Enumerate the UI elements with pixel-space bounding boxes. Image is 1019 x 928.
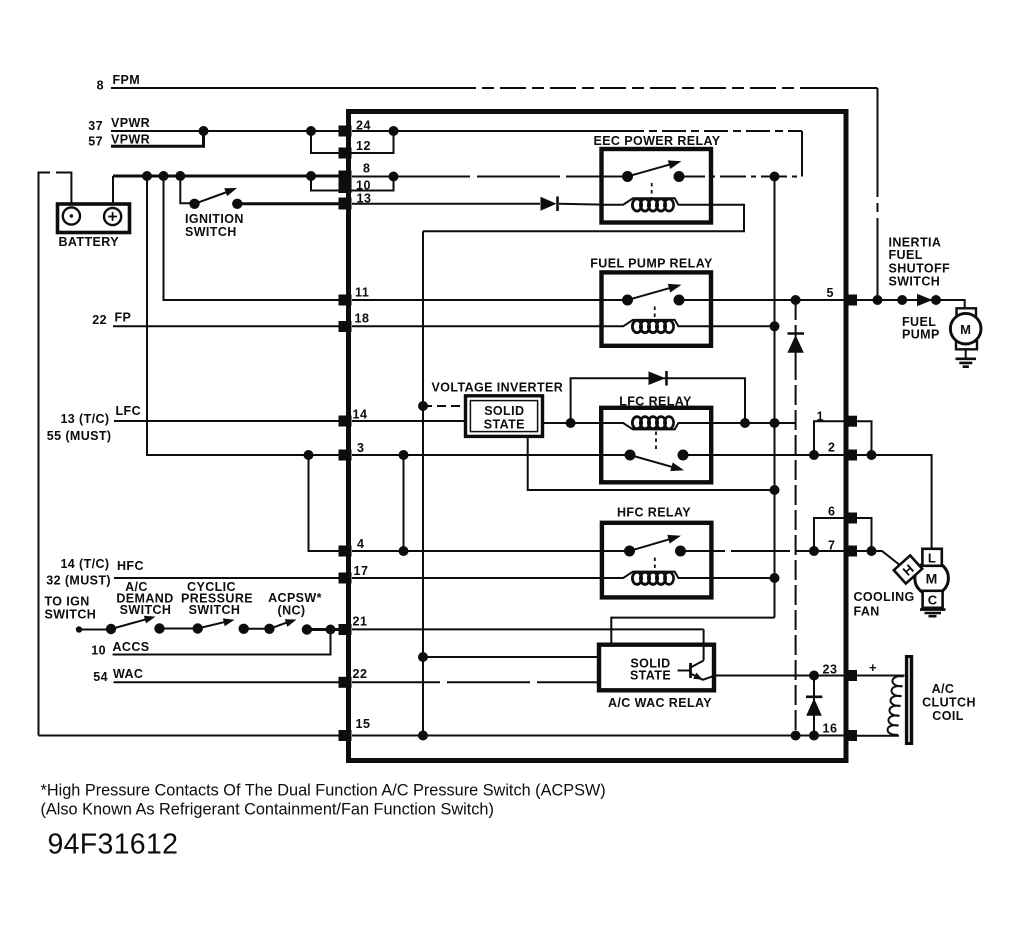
wire internal jumper pin 6 to line 7: [814, 518, 844, 551]
svg-text:VPWR: VPWR: [111, 133, 150, 147]
pin 8 terminal: [339, 171, 352, 182]
wire ACCS line pin 10: [113, 630, 331, 655]
transistor Q1 in WAC relay: [678, 646, 715, 680]
A/C clutch coil L1: [888, 655, 914, 745]
svg-text:L: L: [928, 550, 936, 565]
node VPWR 37/57 junction: [199, 126, 209, 136]
wire FPM pin 8 line horizontal: [111, 87, 450, 89]
pin 6 terminal: [844, 513, 857, 524]
wire voltage inverter top input: [423, 405, 466, 407]
wire line 11 from bus to pin 11: [164, 176, 342, 300]
wire fuel pump relay coil return to bus: [711, 325, 775, 327]
node diode loop right junction: [740, 418, 750, 428]
svg-text:HFC: HFC: [117, 559, 144, 573]
svg-text:14 (T/C): 14 (T/C): [60, 557, 109, 571]
svg-text:VOLTAGE INVERTER: VOLTAGE INVERTER: [432, 380, 564, 394]
svg-text:CLUTCH: CLUTCH: [922, 696, 976, 710]
svg-text:17: 17: [354, 564, 369, 578]
pin 5 terminal: [844, 295, 857, 306]
node inverter bottom line to bus junction: [770, 485, 780, 495]
svg-text:16: 16: [823, 722, 838, 736]
ignition switch S1: [189, 188, 242, 209]
wire VPWR internal bus vertical: [774, 177, 776, 618]
wire pin 10 internal jumper to line 8: [341, 177, 394, 191]
wire ignition switch output to pin 13 (thick): [237, 202, 341, 205]
relay HFC relay contacts: [624, 535, 686, 573]
wire pin 18 internal to fuel pump relay coil: [352, 325, 602, 327]
wire FP line 22 to pin 18: [113, 325, 341, 327]
A/C demand switch S2: [106, 616, 165, 635]
wire pin 6 external jumper: [857, 518, 872, 551]
svg-text:57: 57: [88, 135, 103, 149]
svg-text:LFC: LFC: [116, 404, 142, 418]
node lead end dot: [76, 626, 82, 632]
node ACCS junction: [326, 625, 336, 635]
cyclic pressure switch S3: [193, 618, 249, 634]
wire pin 4 internal to HFC relay left contact: [352, 550, 630, 552]
svg-text:10: 10: [356, 179, 371, 193]
wire outside jumper line 3 to pin 4: [309, 455, 342, 551]
svg-text:SHUTOFF: SHUTOFF: [889, 261, 951, 275]
node inverter output junction to diode loop: [566, 418, 576, 428]
svg-text:22: 22: [92, 313, 107, 327]
svg-text:M: M: [960, 322, 971, 337]
relay LFC relay coil: [602, 417, 711, 430]
wire EEC relay coil return: [423, 205, 744, 231]
svg-text:FAN: FAN: [854, 605, 880, 619]
svg-text:EEC POWER RELAY: EEC POWER RELAY: [593, 134, 720, 148]
wire pin 13 internal line to diode: [352, 203, 540, 205]
node jumper 1/2 junction on line 2: [809, 450, 819, 460]
svg-text:3: 3: [357, 441, 365, 455]
wire VPWR bus feed to WAC solid state: [611, 618, 774, 645]
svg-text:SWITCH: SWITCH: [185, 225, 237, 239]
relay EEC power relay box: [602, 149, 712, 223]
wire diode branch vertical (bus2): [795, 300, 797, 736]
node diode branch bottom junction on line 15: [809, 731, 819, 741]
pin 2 terminal: [844, 450, 857, 461]
wire battery negative to left edge: [39, 173, 72, 736]
wire LFC line to pin 14: [114, 420, 341, 422]
wire line 15 from left edge to pin 15: [39, 735, 342, 737]
ACPSW switch S4: [264, 619, 312, 634]
wire pin 21 internal line: [352, 628, 704, 630]
pin 24 terminal: [339, 126, 352, 137]
svg-text:55 (MUST): 55 (MUST): [47, 429, 112, 443]
wire outside jumper 8 to 10: [311, 176, 341, 191]
wire voltage inverter bottom output to bus: [528, 436, 775, 490]
wire line 23 external to clutch coil: [857, 676, 904, 677]
svg-text:14: 14: [353, 408, 368, 422]
svg-text:(Also Known As Refrigerant Con: (Also Known As Refrigerant Containment/F…: [41, 801, 494, 819]
svg-text:8: 8: [363, 162, 371, 176]
svg-text:FP: FP: [115, 311, 132, 325]
node bus2 bottom junction on line 15: [791, 731, 801, 741]
cooling fan motor M2: [894, 549, 949, 608]
node LFC coil to bus junction: [770, 418, 780, 428]
svg-text:TO IGN: TO IGN: [45, 595, 90, 609]
svg-text:32 (MUST): 32 (MUST): [46, 574, 111, 588]
wire WAC solid state output to pin 23: [714, 675, 844, 677]
wire internal jumper 3 to 4: [403, 455, 405, 551]
relay fuel pump relay contacts: [622, 284, 685, 322]
svg-text:5: 5: [827, 286, 835, 300]
wire pin 17 internal to HFC relay coil: [352, 577, 602, 579]
fuel pump motor M1: [950, 308, 981, 349]
svg-text:FPM: FPM: [113, 73, 141, 87]
node bus junction to line 3 vertical: [142, 171, 152, 181]
svg-text:4: 4: [357, 537, 365, 551]
node external jumper junction on line 2: [867, 450, 877, 460]
svg-text:11: 11: [355, 286, 369, 300]
node FPM junction on line 5: [873, 295, 883, 305]
svg-text:12: 12: [356, 139, 371, 153]
svg-text:24: 24: [356, 119, 371, 133]
svg-text:SWITCH: SWITCH: [45, 608, 97, 622]
wire internal jumper pin 1 to line 2: [814, 421, 844, 455]
svg-text:LFC RELAY: LFC RELAY: [619, 395, 692, 409]
relay EEC power relay coil: [602, 198, 711, 211]
wire VPWR pin 37 lead: [111, 130, 341, 132]
svg-text:SWITCH: SWITCH: [120, 603, 172, 617]
wire long vertical from EEC coil return down to line 15: [422, 231, 424, 735]
wire FPM vertical drop to fuel pump line: [877, 88, 879, 300]
svg-text:13 (T/C): 13 (T/C): [60, 412, 109, 426]
wire outside jumper 24 to 12: [311, 131, 341, 153]
diode CR3 on bus below line 5: [787, 334, 804, 353]
battery BAT1: [58, 204, 130, 233]
svg-text:21: 21: [353, 615, 368, 629]
wire pin 12 internal jumper to line 24: [341, 131, 394, 153]
diode CR1 on line 13: [541, 197, 558, 212]
wire pin 3 internal to LFC relay left contact: [352, 454, 630, 456]
wire pin 14 internal to voltage inverter: [352, 420, 466, 422]
wire chain segment acpsw to pin 21 (thick): [307, 628, 341, 631]
svg-text:18: 18: [355, 312, 370, 326]
wire line 16 external to clutch coil: [857, 735, 899, 737]
svg-text:*High Pressure Contacts Of The: *High Pressure Contacts Of The Dual Func…: [41, 782, 606, 800]
node junction WAC solid state input: [418, 652, 428, 662]
relay LFC relay contacts: [625, 432, 689, 472]
svg-text:8: 8: [97, 79, 104, 93]
diode CR2 LFC bypass: [649, 371, 667, 386]
svg-text:2: 2: [828, 441, 836, 455]
pin 22 terminal: [339, 677, 352, 688]
node bus junction to line 11 vertical: [159, 171, 169, 181]
node diode branch junction on line 23: [809, 671, 819, 681]
wire VPWR pin 57 lead (thick): [111, 131, 204, 146]
svg-text:STATE: STATE: [484, 418, 525, 432]
wire HFC relay coil return to bus: [711, 577, 775, 579]
node internal jumper 8/10: [389, 172, 399, 182]
node diode branch junction on line 5: [791, 295, 801, 305]
svg-text:A/C WAC RELAY: A/C WAC RELAY: [608, 696, 712, 710]
wire FPM dashed segment: [450, 87, 810, 89]
wire pin 8 internal line to EEC relay left contact: [352, 176, 628, 178]
A/C WAC relay solid state box U2: [599, 645, 714, 691]
svg-text:94F31612: 94F31612: [48, 829, 179, 861]
pin 14 terminal: [339, 416, 352, 427]
svg-text:SWITCH: SWITCH: [189, 603, 241, 617]
pin 23 terminal: [844, 670, 857, 681]
relay HFC relay box: [602, 523, 712, 598]
wire switch chain lead from ignition: [79, 629, 112, 631]
wire chain segment cyclic to acpsw: [244, 628, 270, 630]
wire WAC solid state left input: [423, 656, 599, 658]
node junction on line 15: [418, 731, 428, 741]
svg-text:COOLING: COOLING: [854, 590, 915, 604]
svg-text:A/C: A/C: [932, 682, 955, 696]
node HFC coil to bus junction: [770, 573, 780, 583]
wire line 5 external to inertia switch: [857, 300, 965, 309]
svg-text:37: 37: [88, 119, 103, 133]
node VPWR internal bus top junction: [770, 172, 780, 182]
svg-text:13: 13: [357, 192, 372, 206]
svg-text:SWITCH: SWITCH: [889, 275, 941, 289]
pin 7 terminal: [844, 546, 857, 557]
wire voltage inverter output to LFC relay coil: [543, 422, 796, 424]
wire line 21 corner down to transistor collector: [703, 629, 705, 661]
wire line 3 feed vertical from bus: [147, 176, 341, 455]
wire pin 24 internal dash-dot segment: [620, 130, 802, 132]
wire HFC line to pin 17: [114, 577, 341, 579]
pin 12 terminal: [339, 148, 352, 159]
relay LFC relay box: [601, 408, 711, 483]
node VPWR outside jumper junction: [306, 126, 316, 136]
diode CR4 on A/C clutch branch: [806, 697, 822, 716]
node line 3 outside jumper junction: [304, 450, 314, 460]
wire battery positive riser: [112, 176, 114, 205]
wire chain segment demand to cyclic: [160, 628, 198, 630]
wire battery positive bus to pin 8: [113, 175, 341, 178]
node line 5 junction 1: [897, 295, 907, 305]
wire corner down from line 24 to EEC relay output: [801, 131, 803, 177]
node bus junction to ignition switch: [175, 171, 185, 181]
pin 16 terminal: [844, 730, 857, 741]
wire diode branch line 23 to line 15: [813, 676, 815, 736]
node internal jumper 24/12: [389, 126, 399, 136]
svg-text:HFC RELAY: HFC RELAY: [617, 506, 691, 520]
svg-text:WAC: WAC: [113, 667, 143, 681]
ground fuel pump: [956, 349, 977, 366]
node jumper 6/7 junction on line 7: [809, 546, 819, 556]
relay EEC power relay contacts: [622, 160, 685, 199]
svg-text:15: 15: [356, 717, 371, 731]
wire line 2 external to cooling fan L: [857, 455, 932, 549]
svg-text:ACCS: ACCS: [113, 640, 150, 654]
node fuel pump relay coil to bus junction: [770, 321, 780, 331]
relay fuel pump relay box: [602, 272, 712, 345]
svg-text:BATTERY: BATTERY: [59, 235, 120, 249]
wire LFC relay output to pin 2: [683, 454, 844, 456]
EEC module box: [349, 112, 847, 761]
wire ignition switch feed from bus: [180, 176, 189, 203]
svg-text:23: 23: [823, 663, 838, 677]
pin 21 terminal: [339, 624, 352, 635]
svg-text:PUMP: PUMP: [902, 328, 940, 342]
svg-text:54: 54: [93, 670, 108, 684]
wire pin 15 internal line to pin 16: [352, 735, 844, 737]
pin 11 terminal: [339, 295, 352, 306]
svg-text:SOLID: SOLID: [484, 404, 524, 418]
wire pin 24 internal line to EEC relay output corner: [352, 130, 620, 132]
wire WAC line to pin 22: [114, 681, 342, 683]
svg-text:1: 1: [817, 410, 825, 424]
wire line 7 external to cooling fan H: [857, 551, 901, 566]
node internal jumper 3/4 bottom: [399, 546, 409, 556]
relay HFC relay coil: [602, 572, 711, 585]
voltage inverter solid state box U1: [466, 396, 543, 437]
node line 5 junction 2: [931, 295, 941, 305]
svg-text:(NC): (NC): [278, 604, 306, 618]
svg-text:FUEL: FUEL: [889, 248, 923, 262]
ground cooling fan: [920, 608, 946, 616]
pin 1 terminal: [844, 416, 857, 427]
node external jumper junction on line 7: [867, 546, 877, 556]
pin 4 terminal: [339, 546, 352, 557]
wire fuel pump relay output line 5: [679, 299, 844, 301]
wire pin 11 internal to fuel pump relay left contact: [352, 299, 628, 301]
pin 13 terminal: [339, 198, 352, 210]
wire EEC relay output to VPWR corner: [679, 176, 802, 178]
inertia fuel shutoff switch S5: [917, 294, 933, 306]
wire HFC relay output to pin 7: [681, 550, 845, 552]
wire pin 22 internal to solid state: [352, 681, 599, 683]
svg-text:FUEL PUMP RELAY: FUEL PUMP RELAY: [590, 257, 713, 271]
svg-text:+: +: [869, 660, 877, 675]
node junction voltage inverter input: [418, 401, 428, 411]
svg-text:VPWR: VPWR: [111, 116, 150, 130]
svg-text:10: 10: [91, 643, 106, 657]
pin 17 terminal: [339, 573, 352, 584]
svg-text:C: C: [928, 592, 938, 607]
relay fuel pump relay coil: [602, 320, 711, 333]
pin 3 terminal: [339, 450, 352, 461]
wire LFC diode bypass loop: [571, 378, 745, 423]
node bus outside jumper 8/10: [306, 171, 316, 181]
pin 10 terminal: [339, 181, 352, 193]
svg-text:STATE: STATE: [630, 669, 671, 683]
svg-text:6: 6: [828, 505, 836, 519]
pin 18 terminal: [339, 321, 352, 332]
svg-text:7: 7: [828, 539, 836, 553]
wire diode to EEC relay coil: [559, 203, 602, 206]
svg-text:COIL: COIL: [932, 709, 963, 723]
pin 15 terminal: [339, 730, 352, 741]
svg-text:M: M: [926, 571, 938, 587]
node internal jumper 3/4 top: [399, 450, 409, 460]
svg-text:22: 22: [353, 667, 368, 681]
wire pin 1 external jumper: [857, 421, 872, 455]
